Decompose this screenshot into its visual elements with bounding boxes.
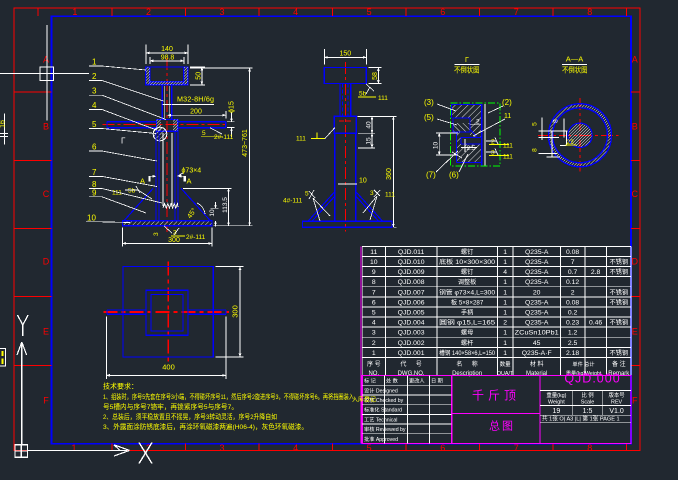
svg-text:千斤顶: 千斤顶 xyxy=(472,389,520,403)
svg-text:QJD.011: QJD.011 xyxy=(398,249,425,256)
svg-text:111: 111 xyxy=(503,143,513,150)
dim 40 xyxy=(358,116,375,133)
svg-text:98.8: 98.8 xyxy=(161,55,175,62)
svg-text:4#-111: 4#-111 xyxy=(283,198,303,205)
svg-text:0.23: 0.23 xyxy=(566,320,579,327)
svg-text:10: 10 xyxy=(359,177,367,184)
svg-text:底板 10×300×300: 底板 10×300×300 xyxy=(439,258,496,266)
svg-text:1、组装时，序号5先套在序号3小端，不得碰坏序号11，然后序: 1、组装时，序号5先套在序号3小端，不得碰坏序号11，然后序号2旋进序号3，不得… xyxy=(103,392,354,401)
svg-text:不锈钢: 不锈钢 xyxy=(610,288,629,296)
svg-text:E: E xyxy=(632,327,638,337)
dim 15 xyxy=(358,133,375,148)
svg-text:1: 1 xyxy=(503,330,507,337)
svg-text:圆钢 φ15,L=165: 圆钢 φ15,L=165 xyxy=(439,319,496,327)
main centerline vertical red xyxy=(166,58,168,232)
svg-text:更改人: 更改人 xyxy=(409,377,425,385)
right info texts xyxy=(546,391,625,406)
svg-text:Weight: Weight xyxy=(548,400,565,406)
svg-text:钢管 φ73×4,L=300: 钢管 φ73×4,L=300 xyxy=(439,288,496,296)
svg-text:不锈钢: 不锈钢 xyxy=(610,298,629,306)
svg-text:5: 5 xyxy=(372,310,376,317)
UCS Y axis xyxy=(17,342,27,445)
svg-text:10: 10 xyxy=(87,213,96,222)
dim 300 bottom view xyxy=(216,267,244,358)
svg-text:2.18: 2.18 xyxy=(566,350,579,357)
svg-text:QJD.003: QJD.003 xyxy=(398,330,425,337)
handle centerline horizontal red xyxy=(102,124,226,126)
svg-text:20: 20 xyxy=(533,289,541,296)
bottom view channel outer xyxy=(146,290,188,335)
UCS X axis xyxy=(28,445,130,456)
detail dim 10 xyxy=(436,133,458,155)
svg-text:Γ: Γ xyxy=(465,57,469,64)
svg-text:1.2: 1.2 xyxy=(568,330,578,337)
svg-text:4: 4 xyxy=(503,269,507,276)
svg-text:板 5×8×287: 板 5×8×287 xyxy=(451,298,484,306)
svg-text:技术要求：: 技术要求： xyxy=(103,382,138,391)
svg-text:名 称: 名 称 xyxy=(456,360,477,368)
svg-text:QJD.009: QJD.009 xyxy=(398,269,425,276)
screw bottom thread zigzag xyxy=(163,204,178,208)
svg-text:材 料: 材 料 xyxy=(530,360,544,368)
svg-text:共 1张 O| A3 |L| 第 1张 PAGE 1: 共 1张 O| A3 |L| 第 1张 PAGE 1 xyxy=(542,415,620,423)
svg-text:Scale: Scale xyxy=(581,400,595,406)
svg-text:A: A xyxy=(43,55,49,65)
zone letters left xyxy=(43,55,50,406)
balloon 3 xyxy=(89,95,166,119)
section cut marks A-A xyxy=(150,176,185,181)
svg-text:2: 2 xyxy=(146,7,151,17)
svg-text:Q235-A: Q235-A xyxy=(525,320,549,327)
svg-text:111: 111 xyxy=(296,136,306,143)
svg-text:5: 5 xyxy=(305,191,309,198)
AA knurled ring hatch xyxy=(549,104,612,167)
svg-text:0.46: 0.46 xyxy=(589,320,602,327)
dim 360 xyxy=(358,116,397,227)
svg-text:3、外露面涂防锈底漆后，再涂环氧磁漆两遍(H06-4)，灰色: 3、外露面涂防锈底漆后，再涂环氧磁漆两遍(H06-4)，灰色环氧磁漆。 xyxy=(103,422,308,431)
bottom view handle bar lines xyxy=(107,310,226,314)
svg-text:1: 1 xyxy=(503,279,507,286)
svg-text:0.08: 0.08 xyxy=(566,299,579,306)
svg-text:Q235-A: Q235-A xyxy=(525,299,549,306)
svg-text:QJD.006: QJD.006 xyxy=(398,299,425,306)
svg-text:A: A xyxy=(632,55,638,65)
zone ticks bottom xyxy=(112,444,627,451)
title block outer magenta xyxy=(362,376,631,444)
svg-text:3: 3 xyxy=(372,330,376,337)
svg-text:M32-8H/6g: M32-8H/6g xyxy=(177,95,214,104)
BOM header xyxy=(367,360,630,377)
svg-text:2: 2 xyxy=(372,340,376,347)
svg-text:B: B xyxy=(43,122,49,132)
svg-text:4: 4 xyxy=(92,101,97,110)
svg-text:111: 111 xyxy=(378,95,388,102)
svg-text:序 号: 序 号 xyxy=(367,360,381,368)
dim 400 xyxy=(106,317,225,380)
svg-text:REV: REV xyxy=(611,400,622,406)
svg-text:5: 5 xyxy=(92,120,97,129)
svg-text:ZCuSn10Pb1: ZCuSn10Pb1 xyxy=(515,330,559,337)
ball detail circle xyxy=(153,127,167,141)
screw thread minor lines xyxy=(162,86,171,118)
svg-text:5b: 5b xyxy=(359,91,367,98)
AA centerline horizontal xyxy=(538,134,619,136)
AA inner ring circle xyxy=(553,108,608,163)
detail green boundary xyxy=(451,103,501,166)
svg-text:A—A: A—A xyxy=(566,55,584,64)
signature area grid xyxy=(362,376,452,444)
svg-text:300: 300 xyxy=(231,305,240,318)
svg-text:1: 1 xyxy=(503,310,507,317)
svg-text:8: 8 xyxy=(532,148,539,152)
svg-text:2#-111: 2#-111 xyxy=(214,134,234,141)
svg-text:QJD.005: QJD.005 xyxy=(398,310,425,317)
svg-text:D: D xyxy=(632,257,639,267)
svg-text:2: 2 xyxy=(571,289,575,296)
svg-text:(3): (3) xyxy=(424,98,434,107)
right info grid xyxy=(540,391,631,423)
svg-text:2#-111: 2#-111 xyxy=(186,234,206,241)
svg-text:批准 Approved: 批准 Approved xyxy=(364,435,398,443)
svg-text:360: 360 xyxy=(386,168,393,180)
svg-text:7: 7 xyxy=(372,289,376,296)
svg-text:2.5: 2.5 xyxy=(467,145,476,152)
weld 5b 111 mid top xyxy=(366,84,374,94)
svg-text:螺钉: 螺钉 xyxy=(461,268,473,276)
svg-text:1: 1 xyxy=(71,443,76,453)
detail lower hatch region xyxy=(457,144,481,163)
svg-text:1: 1 xyxy=(72,7,77,17)
dim 58 xyxy=(368,68,381,84)
svg-text:111: 111 xyxy=(385,192,395,199)
AA screw section xyxy=(568,123,592,147)
svg-text:200: 200 xyxy=(190,109,202,116)
svg-text:工艺 Technical: 工艺 Technical xyxy=(364,416,397,423)
svg-text:4: 4 xyxy=(372,320,376,327)
svg-text:140: 140 xyxy=(161,46,173,53)
svg-text:不锈钢: 不锈钢 xyxy=(610,268,629,276)
svg-text:300: 300 xyxy=(168,237,180,244)
tube outer walls xyxy=(156,131,178,221)
svg-text:11: 11 xyxy=(504,113,511,120)
svg-text:400: 400 xyxy=(162,363,175,372)
svg-text:D: D xyxy=(43,257,50,267)
svg-text:1: 1 xyxy=(503,249,507,256)
svg-text:10: 10 xyxy=(370,259,378,266)
svg-text:不锈钢: 不锈钢 xyxy=(610,258,629,266)
weld mark 5 2#-111 right of handle xyxy=(210,128,222,134)
svg-text:手柄: 手柄 xyxy=(461,309,473,317)
dim 200 xyxy=(168,111,226,119)
gusset left xyxy=(124,188,153,221)
balloon 10 xyxy=(86,221,130,224)
svg-text:螺杆: 螺杆 xyxy=(461,339,473,347)
svg-text:111: 111 xyxy=(503,154,513,161)
zone ticks top xyxy=(38,8,627,16)
dim phi15 xyxy=(227,112,235,137)
svg-text:6: 6 xyxy=(440,7,445,17)
svg-text:螺钉: 螺钉 xyxy=(461,248,473,256)
svg-text:F: F xyxy=(43,396,49,406)
sheet inner border blue xyxy=(52,16,632,444)
svg-text:2: 2 xyxy=(503,320,507,327)
svg-text:QJD.000: QJD.000 xyxy=(564,372,620,386)
balloon 1 xyxy=(89,66,146,70)
svg-text:6: 6 xyxy=(440,443,445,453)
svg-text:审核 Reviewed by: 审核 Reviewed by xyxy=(364,425,406,433)
svg-text:5: 5 xyxy=(367,443,372,453)
svg-text:E: E xyxy=(43,327,49,337)
svg-text:4: 4 xyxy=(293,7,298,17)
dim 98.8 xyxy=(150,57,184,64)
mid column xyxy=(335,133,356,221)
dim phi73x4 xyxy=(149,173,185,176)
svg-text:113.5: 113.5 xyxy=(222,197,229,213)
bottom view channel inner xyxy=(151,295,183,331)
zone ticks left xyxy=(14,92,52,366)
screw rod upper xyxy=(162,85,171,120)
svg-text:号5槽内与序号7铬牢，再锁紧序号5与序号7。: 号5槽内与序号7铬牢，再锁紧序号5与序号7。 xyxy=(103,402,238,411)
cup hatch xyxy=(146,67,188,85)
detail upper hatch region xyxy=(452,104,482,137)
svg-text:7: 7 xyxy=(571,259,575,266)
svg-text:螺母: 螺母 xyxy=(461,329,473,337)
svg-text:C: C xyxy=(632,189,639,199)
mid cap xyxy=(324,68,366,84)
dim 10 mid xyxy=(338,183,357,185)
svg-text:数量: 数量 xyxy=(500,360,511,368)
mid centerline red xyxy=(344,62,346,232)
svg-text:2、总装后，须平稳放置且不摇晃，序号3转动灵活，序号2升降自: 2、总装后，须平稳放置且不摇晃，序号3转动灵活，序号2升降自如 xyxy=(103,412,277,421)
svg-text:9: 9 xyxy=(372,269,376,276)
bottom view centerline vertical xyxy=(167,262,169,363)
svg-text:1: 1 xyxy=(503,299,507,306)
svg-text:16: 16 xyxy=(0,120,7,128)
svg-text:10: 10 xyxy=(209,209,216,217)
svg-text:1: 1 xyxy=(503,340,507,347)
svg-text:(2): (2) xyxy=(502,98,512,107)
dim 473-761 overall xyxy=(190,68,253,226)
svg-text:3: 3 xyxy=(370,190,374,197)
AA key lines xyxy=(539,118,568,158)
cup top plate xyxy=(146,67,188,85)
svg-text:Q235-A: Q235-A xyxy=(525,249,549,256)
svg-text:19: 19 xyxy=(553,408,561,415)
svg-text:40: 40 xyxy=(365,121,372,129)
balloon 6 xyxy=(89,151,157,161)
svg-text:(6): (6) xyxy=(449,171,459,180)
svg-text:10: 10 xyxy=(433,142,440,150)
svg-text:5: 5 xyxy=(532,122,539,126)
svg-text:A: A xyxy=(187,177,192,186)
svg-text:7: 7 xyxy=(514,7,519,17)
svg-text:8: 8 xyxy=(372,279,376,286)
svg-text:标准化 Standard: 标准化 Standard xyxy=(364,406,402,414)
svg-text:Q235-A: Q235-A xyxy=(525,279,549,286)
svg-text:2.5: 2.5 xyxy=(568,340,578,347)
svg-text:Q235-A·F: Q235-A·F xyxy=(522,350,552,357)
svg-text:处 数: 处 数 xyxy=(386,377,399,385)
AA outer circle xyxy=(549,104,612,167)
svg-text:0.2: 0.2 xyxy=(568,310,578,317)
svg-text:8: 8 xyxy=(587,443,592,453)
detail rod line blue xyxy=(481,104,483,166)
svg-text:比 例: 比 例 xyxy=(581,391,593,399)
UCS X letter xyxy=(139,443,152,464)
zone numbers top xyxy=(72,7,592,17)
AA centerline vertical xyxy=(579,98,581,172)
svg-text:不锈钢: 不锈钢 xyxy=(610,349,629,357)
balloon 4 xyxy=(89,110,157,131)
dim 150 xyxy=(324,49,366,65)
balloon 2 xyxy=(89,81,164,102)
svg-text:QJD.010: QJD.010 xyxy=(398,259,425,266)
svg-text:Q235-A: Q235-A xyxy=(525,259,549,266)
bottom view outer square xyxy=(123,267,213,358)
zone letters right xyxy=(632,55,639,406)
nut block at handle xyxy=(157,119,178,131)
detail pocket hatch xyxy=(453,123,470,132)
mid nut xyxy=(334,116,356,133)
svg-text:1:5: 1:5 xyxy=(583,408,593,415)
svg-text:设计 Designed: 设计 Designed xyxy=(364,386,398,394)
svg-text:5: 5 xyxy=(367,7,372,17)
svg-text:1: 1 xyxy=(503,259,507,266)
svg-text:7: 7 xyxy=(92,168,97,177)
svg-text:代 号: 代 号 xyxy=(400,360,421,368)
svg-text:ϕ15: ϕ15 xyxy=(229,101,236,113)
svg-text:重量(kg): 重量(kg) xyxy=(546,391,566,399)
svg-text:Q235-A: Q235-A xyxy=(525,269,549,276)
BOM left magenta edge xyxy=(360,246,362,443)
handle bar xyxy=(107,122,226,128)
zone ticks right xyxy=(631,92,640,366)
svg-text:3: 3 xyxy=(219,443,224,453)
zone numbers bottom xyxy=(71,443,592,453)
svg-text:(7): (7) xyxy=(426,171,436,180)
clipped dim at far left edge upper xyxy=(0,114,8,145)
svg-text:473~761: 473~761 xyxy=(242,129,249,157)
svg-text:QJD.004: QJD.004 xyxy=(398,320,425,327)
svg-text:调整板: 调整板 xyxy=(458,278,477,286)
svg-text:5b: 5b xyxy=(128,188,136,195)
svg-text:45: 45 xyxy=(533,340,541,347)
svg-text:8: 8 xyxy=(552,119,559,123)
dim 140 xyxy=(146,45,188,65)
BOM table grid xyxy=(362,246,631,375)
signature texts xyxy=(364,377,443,443)
svg-text:0.12: 0.12 xyxy=(566,279,579,286)
mid nut center mark xyxy=(339,120,351,122)
svg-text:15: 15 xyxy=(365,137,372,145)
detail blue outline xyxy=(452,104,482,162)
svg-text:Γ: Γ xyxy=(121,137,126,146)
BOM rows text xyxy=(370,248,628,357)
svg-text:1: 1 xyxy=(92,58,97,67)
svg-text:3: 3 xyxy=(92,87,97,96)
svg-text:日 期: 日 期 xyxy=(431,378,443,385)
svg-text:11: 11 xyxy=(370,249,377,256)
svg-text:总图: 总图 xyxy=(489,419,515,433)
svg-text:2: 2 xyxy=(92,72,97,81)
screw body hidden in tube xyxy=(163,133,172,206)
svg-text:1: 1 xyxy=(372,350,376,357)
svg-text:4: 4 xyxy=(293,443,298,453)
svg-text:V1.0: V1.0 xyxy=(609,408,624,415)
svg-text:6: 6 xyxy=(372,299,376,306)
svg-text:3: 3 xyxy=(219,7,224,17)
svg-text:版本号: 版本号 xyxy=(609,391,626,399)
svg-text:1: 1 xyxy=(503,289,507,296)
UCS Y letter xyxy=(18,315,29,336)
clipped yellow dash far left lower xyxy=(2,351,4,364)
mid gussets xyxy=(308,192,383,222)
svg-text:0.7: 0.7 xyxy=(568,269,578,276)
balloon 9 xyxy=(89,197,146,213)
dim 50 xyxy=(190,67,205,85)
detail mid-left hatch xyxy=(457,132,462,144)
svg-text:2.8: 2.8 xyxy=(591,269,601,276)
svg-text:QJD.008: QJD.008 xyxy=(398,279,425,286)
svg-text:Q235-A: Q235-A xyxy=(525,310,549,317)
svg-text:QJD.001: QJD.001 xyxy=(398,350,425,357)
svg-text:QJD.007: QJD.007 xyxy=(398,289,425,296)
technical notes xyxy=(103,382,138,391)
svg-text:7: 7 xyxy=(514,443,519,453)
svg-text:1: 1 xyxy=(503,350,507,357)
nut hatch strips xyxy=(157,119,162,131)
svg-text:ϕ73×4: ϕ73×4 xyxy=(182,167,202,174)
gusset right xyxy=(181,188,210,221)
svg-text:58: 58 xyxy=(372,72,379,80)
svg-text:0.08: 0.08 xyxy=(566,249,579,256)
svg-text:9: 9 xyxy=(92,188,97,197)
svg-text:F: F xyxy=(632,396,638,406)
svg-text:备 注: 备 注 xyxy=(612,360,626,368)
clipped bracket far left lower xyxy=(0,348,6,366)
svg-text:不倒状图: 不倒状图 xyxy=(562,65,588,75)
svg-text:(5): (5) xyxy=(424,113,434,122)
svg-text:50: 50 xyxy=(195,72,202,80)
balloon 7 xyxy=(89,176,157,186)
dim 300 main xyxy=(122,228,212,247)
svg-text:标 记: 标 记 xyxy=(364,377,376,385)
svg-text:6: 6 xyxy=(92,143,97,152)
dim 10 gusset xyxy=(210,202,218,227)
svg-text:单件 总计: 单件 总计 xyxy=(572,360,594,368)
mid stem xyxy=(340,84,351,117)
base plate xyxy=(122,221,212,226)
mid base plate xyxy=(303,221,393,227)
svg-text:150: 150 xyxy=(339,51,351,58)
dim 113.5 xyxy=(183,188,232,225)
svg-text:B: B xyxy=(632,122,638,132)
svg-text:3: 3 xyxy=(153,232,160,236)
svg-text:槽钢 140×58×6,L=150: 槽钢 140×58×6,L=150 xyxy=(439,349,496,357)
balloon 8 xyxy=(89,189,162,204)
balloon 5 xyxy=(89,129,156,134)
crosshair cursor xyxy=(0,25,89,121)
svg-text:入库登记: 入库登记 xyxy=(352,396,376,404)
svg-text:5: 5 xyxy=(202,130,206,137)
svg-text:C: C xyxy=(43,189,50,199)
detail rod line white xyxy=(484,104,486,166)
svg-text:不倒状图: 不倒状图 xyxy=(454,65,480,75)
bottom view centerline horizontal xyxy=(104,311,230,313)
svg-text:QJD.002: QJD.002 xyxy=(398,340,425,347)
leader thread label xyxy=(172,104,214,106)
svg-text:8: 8 xyxy=(587,7,592,17)
